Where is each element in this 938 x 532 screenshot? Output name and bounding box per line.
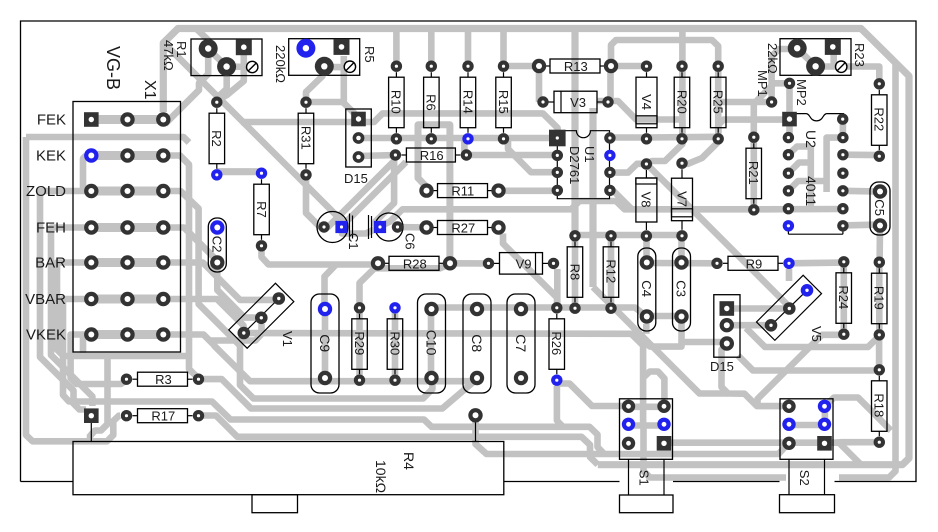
svg-text:D15: D15	[344, 171, 368, 186]
svg-text:S2: S2	[797, 470, 812, 486]
svg-text:C3: C3	[674, 280, 689, 297]
svg-text:R5: R5	[362, 46, 377, 63]
svg-text:MP2: MP2	[794, 79, 809, 106]
svg-text:R12: R12	[603, 259, 618, 283]
svg-text:U2: U2	[803, 130, 819, 148]
svg-text:R21: R21	[746, 161, 761, 185]
svg-text:C7: C7	[513, 334, 529, 352]
svg-text:R25: R25	[711, 90, 726, 114]
svg-text:V4: V4	[639, 94, 654, 110]
svg-text:S1: S1	[637, 470, 652, 486]
svg-text:R20: R20	[674, 90, 689, 114]
svg-text:R7: R7	[254, 201, 269, 218]
svg-text:C4: C4	[639, 280, 654, 297]
svg-text:R27: R27	[451, 221, 475, 236]
svg-text:R16: R16	[420, 148, 444, 163]
svg-text:FEK: FEK	[37, 112, 66, 129]
svg-text:C10: C10	[424, 330, 440, 356]
svg-text:VBAR: VBAR	[25, 291, 66, 308]
svg-text:KEK: KEK	[36, 148, 66, 165]
svg-text:47kΩ: 47kΩ	[161, 40, 176, 71]
svg-text:R22: R22	[872, 107, 887, 131]
svg-text:C5: C5	[872, 199, 887, 216]
svg-text:10kΩ: 10kΩ	[373, 460, 389, 493]
svg-text:R15: R15	[496, 90, 511, 114]
svg-text:C2: C2	[209, 236, 224, 253]
svg-text:R14: R14	[460, 90, 475, 114]
svg-text:C8: C8	[469, 334, 485, 352]
svg-text:R8: R8	[567, 264, 582, 281]
svg-text:V3: V3	[570, 95, 586, 110]
svg-text:R3: R3	[155, 372, 172, 387]
svg-text:MP1: MP1	[755, 70, 770, 97]
svg-text:R6: R6	[424, 94, 439, 111]
svg-text:R30: R30	[387, 331, 402, 355]
svg-text:R18: R18	[872, 393, 887, 417]
svg-text:R11: R11	[451, 184, 474, 199]
svg-text:R29: R29	[352, 331, 367, 355]
svg-text:V5: V5	[809, 326, 824, 342]
svg-text:R19: R19	[872, 286, 887, 310]
svg-text:R9: R9	[746, 256, 763, 271]
svg-text:D2761: D2761	[567, 146, 582, 184]
svg-text:C1: C1	[346, 233, 361, 250]
svg-text:R31: R31	[298, 126, 313, 150]
svg-text:V7: V7	[674, 191, 689, 207]
svg-text:BAR: BAR	[35, 255, 66, 272]
svg-text:FEH: FEH	[36, 220, 66, 237]
svg-text:D15: D15	[710, 359, 734, 374]
svg-text:V9: V9	[516, 256, 532, 271]
svg-text:X1: X1	[141, 80, 158, 100]
svg-text:R4: R4	[401, 452, 417, 470]
svg-text:R2: R2	[209, 130, 224, 147]
svg-text:R13: R13	[564, 59, 588, 74]
svg-text:V8: V8	[639, 192, 654, 208]
svg-text:U1: U1	[582, 146, 597, 163]
svg-text:ZOLD: ZOLD	[26, 183, 66, 200]
svg-text:R10: R10	[389, 90, 404, 114]
svg-text:R17: R17	[151, 409, 175, 424]
svg-text:R26: R26	[549, 331, 564, 355]
svg-text:C9: C9	[317, 334, 333, 352]
svg-text:C6: C6	[403, 233, 418, 250]
svg-text:VG-B: VG-B	[103, 46, 123, 90]
svg-text:R23: R23	[852, 43, 867, 67]
svg-text:R28: R28	[403, 256, 427, 271]
svg-text:V1: V1	[280, 331, 295, 347]
svg-text:R24: R24	[836, 285, 851, 309]
svg-text:220kΩ: 220kΩ	[273, 45, 288, 83]
svg-text:4011: 4011	[803, 176, 819, 206]
svg-text:VKEK: VKEK	[26, 327, 66, 344]
